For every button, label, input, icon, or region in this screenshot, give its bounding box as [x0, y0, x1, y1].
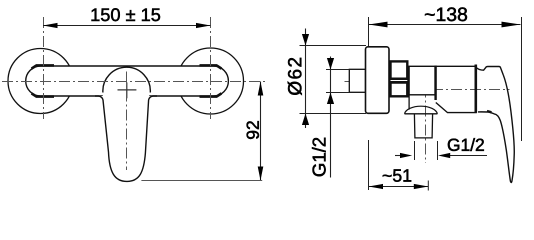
left union nut thick top edge: [32, 65, 55, 68]
dimension 92 vertical: [260, 82, 262, 181]
collar bottom line: [405, 113, 438, 115]
wall thread stub G1/2: [349, 69, 365, 92]
ref line flange top: [300, 45, 367, 47]
body section B: [436, 66, 477, 112]
handle underside nub: [487, 111, 492, 112]
handle blade (side view): [478, 75, 514, 183]
right escutcheon circle: [178, 48, 244, 114]
centerline horizontal body axis: [2, 81, 265, 83]
dimension G1/2 wall thread: [330, 57, 332, 178]
dimension diameter 62: [305, 29, 307, 129]
label G1/2 outlet: [448, 138, 484, 151]
label 92: [247, 121, 259, 139]
extension outlet stub right: [437, 141, 439, 160]
extension flange left bottom: [368, 140, 370, 190]
body section A: [409, 66, 435, 95]
extension line right (handle): [521, 17, 523, 141]
dimension G1/2 outlet callout: [395, 155, 401, 157]
dimension 150 +/- 15: [43, 25, 211, 27]
right union nut thick bottom edge: [200, 93, 222, 96]
left union nut thick bottom edge: [32, 93, 55, 96]
label diameter 62: [288, 58, 302, 95]
hex facet lines: [391, 77, 408, 83]
reference line at lever tip: [141, 180, 262, 182]
step edge thick: [434, 66, 436, 101]
centerline lever vertical: [126, 72, 128, 171]
lever blade (front view): [95, 96, 157, 181]
centerline outlet vertical: [425, 87, 427, 164]
blade whiteout over body bottom line: [103, 94, 149, 97]
outlet stub G1/2: [414, 114, 432, 138]
extension line left (flange): [368, 17, 370, 46]
ref line stub top: [326, 69, 349, 71]
outlet collar dome: [405, 106, 438, 114]
handle cap hump: [476, 67, 503, 76]
wall flange (escutcheon side view): [366, 47, 390, 114]
union hex nut: [391, 61, 408, 96]
ref line stub bottom: [326, 92, 349, 94]
mixer body (front view): [26, 66, 229, 96]
dimension ~51: [369, 186, 429, 188]
dimension ~138: [369, 24, 521, 26]
label ~51: [383, 169, 411, 181]
centerline right escutcheon vertical: [210, 17, 212, 119]
body left lower edge to collar: [408, 95, 410, 110]
right union nut thick top edge: [200, 65, 222, 68]
left escutcheon circle: [8, 49, 73, 114]
centerline wall axis: [345, 81, 418, 83]
cartridge dome arc: [103, 67, 150, 92]
extension tick right of dim 51: [427, 181, 429, 191]
cartridge cross mark: [118, 89, 137, 91]
extension outlet stub left: [414, 141, 416, 160]
label G1/2 wall: [312, 138, 326, 176]
ref line flange bottom: [300, 113, 367, 115]
centerline left escutcheon vertical: [43, 17, 45, 119]
body right edge thick: [474, 65, 477, 113]
centerline handle axis: [432, 89, 510, 91]
